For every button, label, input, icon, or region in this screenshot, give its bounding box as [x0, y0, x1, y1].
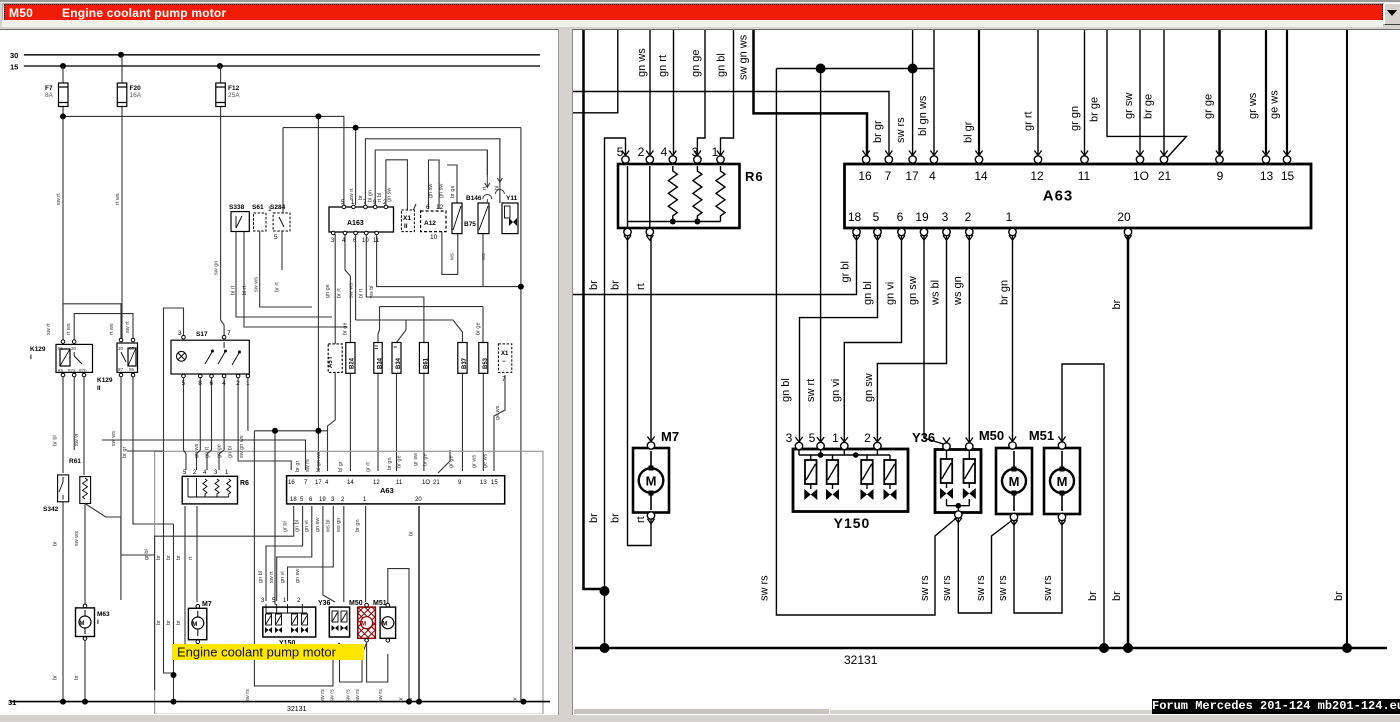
- svg-text:15: 15: [10, 63, 18, 72]
- wire sw rt to Y150 pin 5 mini: [274, 431, 276, 605]
- fuse F12: [216, 83, 226, 107]
- junction dots on buses: [60, 52, 223, 69]
- valve block Y150: [793, 449, 908, 531]
- svg-text:Y150: Y150: [834, 515, 871, 531]
- sensor B75: [452, 203, 462, 234]
- svg-text:bl rt: bl rt: [242, 285, 248, 295]
- svg-text:M: M: [646, 474, 657, 489]
- svg-text:18: 18: [290, 497, 297, 503]
- sensor B61: [419, 343, 428, 374]
- wire gn sw from A63 pin 19 to Y36 pin 1: [924, 235, 947, 445]
- svg-text:X1: X1: [501, 351, 509, 357]
- svg-text:12: 12: [1030, 169, 1044, 183]
- wire sw rt to K129 I: [62, 116, 64, 340]
- wire to A63 pin 17 via junction: [317, 116, 319, 471]
- svg-text:bl rt: bl rt: [231, 285, 237, 295]
- svg-text:15: 15: [491, 480, 498, 486]
- svg-text:br: br: [74, 675, 80, 680]
- svg-text:br: br: [1333, 591, 1345, 601]
- svg-text:R6: R6: [240, 480, 249, 487]
- svg-text:br: br: [1087, 591, 1099, 601]
- wire top-left elbow: [573, 28, 618, 113]
- wire sw rt junction to Y150 pin 5: [820, 69, 822, 444]
- svg-text:br: br: [176, 555, 182, 560]
- svg-text:br ge: br ge: [342, 322, 348, 335]
- svg-text:B61: B61: [424, 357, 430, 369]
- motor M50 mini highlighted: [358, 607, 376, 638]
- combobox: selected schematic M50: [2, 3, 1386, 25]
- Y150 internals: [799, 446, 896, 489]
- wire gn bl from A63 pin 5 to Y150 pin 3: [800, 235, 878, 443]
- wire to A63 pin 4: [933, 28, 935, 159]
- forum watermark bar: [1152, 699, 1400, 714]
- svg-text:6: 6: [897, 210, 904, 224]
- svg-text:br rt: br rt: [336, 288, 342, 298]
- svg-text:25A: 25A: [228, 92, 240, 99]
- wire br from A63 pin 20 to ground bus: [1127, 235, 1130, 648]
- wire gn vi from A63 pin 6 to Y150 pin 1: [844, 235, 901, 443]
- svg-text:gn bl: gn bl: [716, 53, 728, 77]
- wire br ge from A163 pin 4 to B24: [345, 234, 350, 343]
- svg-text:S61: S61: [252, 204, 264, 211]
- svg-text:gr rt: gr rt: [366, 462, 372, 472]
- svg-text:2: 2: [864, 431, 871, 445]
- svg-text:10: 10: [362, 238, 369, 244]
- svg-text:5: 5: [873, 210, 880, 224]
- svg-text:17: 17: [315, 480, 322, 486]
- motor M7: [633, 429, 679, 519]
- svg-text:20: 20: [415, 497, 422, 503]
- svg-text:31: 31: [8, 698, 16, 707]
- svg-text:gn sw: gn sw: [863, 373, 875, 402]
- A63 bottom pin numbers: [848, 210, 1131, 224]
- svg-text:M: M: [1057, 474, 1068, 489]
- svg-text:gn vi: gn vi: [830, 379, 842, 402]
- svg-text:sw rs: sw rs: [895, 117, 907, 143]
- switch unit S17: [171, 340, 249, 374]
- S17 lamp: [177, 351, 187, 361]
- svg-text:85: 85: [58, 368, 64, 373]
- svg-text:3: 3: [786, 431, 793, 445]
- svg-text:sw rs: sw rs: [320, 689, 326, 702]
- wire ws bl A63 pin 3 to Y150 pin 2 mini: [288, 506, 334, 601]
- svg-text:13: 13: [480, 480, 487, 486]
- sensor B37: [458, 343, 467, 374]
- svg-text:gn ws: gn ws: [194, 443, 200, 458]
- svg-text:17: 17: [905, 169, 919, 183]
- wire sw ws from R61 to M63 and br to ground: [84, 504, 86, 702]
- svg-text:gn ge: gn ge: [216, 444, 222, 458]
- svg-text:sw rs: sw rs: [245, 689, 251, 702]
- wire S17 outputs down to R6: [102, 377, 524, 702]
- svg-text:sw rt: sw rt: [269, 571, 275, 583]
- svg-text:2: 2: [965, 210, 972, 224]
- control unit A63: [845, 164, 1312, 228]
- svg-text:br: br: [156, 555, 162, 560]
- svg-text:5: 5: [809, 431, 816, 445]
- wire br R6 to M7 bottom mini: [185, 506, 198, 648]
- svg-text:87: 87: [118, 367, 124, 372]
- svg-text:gr ws: gr ws: [1247, 92, 1259, 119]
- connector S338: [231, 212, 249, 232]
- wire elbow left mini: [127, 450, 164, 452]
- svg-text:br bl: br bl: [53, 435, 59, 446]
- motor M51: [1029, 428, 1080, 521]
- wire bus from A163 pin 6 to B37: [356, 234, 463, 343]
- svg-text:gn bl: gn bl: [258, 571, 264, 583]
- svg-text:br gr: br gr: [122, 447, 128, 458]
- svg-text:br rt: br rt: [275, 282, 281, 292]
- svg-text:X1: X1: [403, 215, 411, 222]
- S17 contacts: [205, 342, 241, 365]
- wire gn ge S17 pin 6 to R6 pin 4: [207, 377, 212, 470]
- svg-text:2: 2: [297, 598, 301, 604]
- valve block Y36 mini: [329, 607, 349, 637]
- svg-text:gn bl: gn bl: [862, 281, 874, 305]
- wire sw rt bridge K129 I to K129 II: [63, 304, 121, 340]
- wire gn bl A63 pin 5 to Y150 pin 3 mini: [266, 506, 303, 601]
- svg-text:5: 5: [274, 234, 278, 241]
- svg-text:br ge: br ge: [1089, 97, 1101, 122]
- wire gr ws to A63 pin 13: [1265, 28, 1267, 159]
- Y150 pin circles and numbers: [795, 442, 881, 449]
- svg-text:gn ge: gn ge: [325, 284, 331, 298]
- svg-text:B146: B146: [466, 195, 482, 202]
- wire br to ground bus: [173, 524, 175, 702]
- svg-text:18: 18: [848, 210, 862, 224]
- svg-text:br: br: [166, 620, 172, 625]
- svg-text:gn bl: gn bl: [780, 378, 792, 402]
- svg-text:1: 1: [1006, 210, 1013, 224]
- svg-text:3: 3: [214, 470, 218, 476]
- svg-text:1O: 1O: [422, 480, 430, 486]
- svg-text:rt: rt: [635, 516, 647, 523]
- svg-text:sw rs: sw rs: [975, 575, 987, 601]
- svg-text:86: 86: [58, 346, 64, 351]
- right panel bottom scrollbar: [574, 709, 1400, 714]
- svg-text:1: 1: [832, 431, 839, 445]
- wire bl gr to A63 pin 14: [978, 28, 980, 159]
- wire br from M7 bottom: [628, 235, 652, 546]
- wire br gn from A63 pin 1 to M50: [1012, 235, 1014, 442]
- motor M63: [76, 608, 95, 637]
- svg-text:II: II: [97, 385, 101, 392]
- wire gr sw to A63 pin 10: [1139, 28, 1141, 159]
- svg-text:br: br: [409, 531, 415, 536]
- svg-text:B34: B34: [378, 357, 384, 369]
- resistor R61: [80, 477, 91, 504]
- svg-text:2: 2: [193, 470, 197, 476]
- svg-text:bl gn ws: bl gn ws: [917, 95, 929, 136]
- svg-text:M51: M51: [1029, 428, 1054, 443]
- svg-text:br: br: [610, 513, 622, 523]
- svg-text:Y36: Y36: [318, 600, 331, 607]
- svg-text:16A: 16A: [130, 92, 142, 99]
- svg-text:10: 10: [430, 234, 438, 241]
- valve block Y36: [912, 430, 981, 513]
- relay K129 I: [56, 344, 93, 372]
- svg-text:B34: B34: [396, 357, 402, 369]
- wire labels upper: [56, 193, 220, 275]
- svg-text:rt ws: rt ws: [109, 323, 115, 335]
- svg-text:br: br: [53, 675, 59, 680]
- wire bridge A12 pins 6 to 12: [429, 160, 440, 209]
- svg-text:sw vi: sw vi: [74, 434, 80, 446]
- svg-text:br ge: br ge: [450, 185, 456, 198]
- wire gn sw A63 pin 19 to Y36 mini: [323, 506, 335, 602]
- svg-text:13: 13: [1260, 169, 1274, 183]
- wire F12 feed: [221, 66, 225, 335]
- svg-text:M63: M63: [97, 611, 110, 618]
- R6 pin numbers: [617, 145, 719, 159]
- svg-text:M: M: [361, 622, 366, 628]
- svg-text:4: 4: [929, 169, 936, 183]
- svg-text:15: 15: [1281, 169, 1295, 183]
- svg-text:sw rs: sw rs: [919, 575, 931, 601]
- sensor B34: [392, 343, 401, 374]
- svg-text:30: 30: [118, 346, 124, 351]
- wire br from R6 pin 5 down to ground bus: [605, 138, 626, 648]
- wire br A63 pin 20 to ground mini: [418, 506, 420, 702]
- svg-text:30: 30: [71, 346, 77, 351]
- R6 internals: three resistors: [628, 166, 726, 229]
- svg-text:bl gr: bl gr: [338, 461, 344, 472]
- wire gn bl to R6 pin 1: [721, 28, 734, 154]
- svg-text:gr ge: gr ge: [1203, 94, 1215, 119]
- wire gn sw from A163 pin 2 to X1: [386, 160, 408, 210]
- svg-text:21: 21: [1158, 169, 1172, 183]
- switch S284: [273, 213, 290, 231]
- svg-text:F12: F12: [228, 85, 240, 92]
- motor M51 mini: [380, 607, 396, 638]
- svg-text:sw rs: sw rs: [329, 689, 335, 702]
- svg-text:gn sw: gn sw: [295, 569, 301, 583]
- wire gn rt S17 pin 8 to R6 pin 2: [197, 377, 201, 470]
- wire gn rt to R6 pin 4: [673, 28, 675, 154]
- svg-text:S338: S338: [229, 204, 245, 211]
- svg-text:16: 16: [858, 169, 872, 183]
- svg-text:4: 4: [203, 470, 207, 476]
- svg-text:gn sw: gn sw: [439, 184, 445, 198]
- sensor B53: [479, 343, 488, 374]
- svg-text:ws: ws: [481, 253, 487, 261]
- svg-text:br gr: br gr: [872, 120, 884, 143]
- svg-text:gn rt: gn rt: [205, 447, 211, 458]
- svg-text:5: 5: [183, 470, 187, 476]
- svg-text:sw rs: sw rs: [997, 575, 1009, 601]
- svg-text:−: −: [502, 359, 506, 365]
- svg-text:br ge: br ge: [423, 453, 429, 466]
- wire br right main drop to ground bus: [520, 128, 522, 702]
- svg-text:br ge: br ge: [1143, 94, 1155, 119]
- svg-text:ws bl: ws bl: [369, 285, 375, 299]
- wire junction line: [776, 68, 934, 70]
- wire ws bl from A63 pin 3 to Y150 pin 2: [877, 235, 946, 443]
- svg-text:I: I: [97, 619, 99, 626]
- svg-text:br gr: br gr: [295, 461, 301, 472]
- control unit A163: [329, 207, 394, 232]
- svg-text:br ge: br ge: [396, 455, 402, 468]
- svg-text:br gn: br gn: [387, 457, 393, 470]
- svg-text:ge ws: ge ws: [495, 405, 501, 420]
- svg-text:S342: S342: [43, 506, 59, 513]
- svg-text:Y11: Y11: [506, 195, 518, 202]
- svg-text:19: 19: [319, 497, 326, 503]
- wire sw gn ws S17 pin 2 to A63 pin 16: [238, 377, 291, 470]
- wire gr gn to A63 pin 11: [1084, 28, 1086, 159]
- wire F7 feed from bus 15: [62, 66, 64, 116]
- svg-text:gn bl: gn bl: [295, 520, 301, 532]
- wire sw ws from K129 II pin 87: [121, 377, 155, 555]
- svg-text:gn ge: gn ge: [690, 49, 702, 77]
- fuse F20: [117, 83, 127, 107]
- svg-text:3: 3: [692, 145, 699, 159]
- svg-text:B24: B24: [350, 357, 356, 369]
- wire rt from R6 to M7 top: [650, 235, 652, 442]
- svg-text:gr gn: gr gn: [1069, 106, 1081, 131]
- wire left thick vertical: [584, 28, 604, 589]
- labels between R6 and A63 mini: [144, 435, 518, 702]
- wire sw rs U route to Y36: [776, 69, 957, 616]
- svg-text:sw ws: sw ws: [111, 431, 117, 446]
- wire sw rs from Y36 bottom to M50 bottom: [958, 517, 1012, 613]
- resistor block R6 mini: [182, 476, 237, 504]
- svg-text:ge ws: ge ws: [1269, 90, 1281, 119]
- wire sw rs U route mini: [254, 431, 339, 686]
- svg-text:6: 6: [426, 204, 430, 211]
- svg-text:A63: A63: [380, 486, 394, 495]
- viewport rectangle: [155, 451, 543, 714]
- svg-text:A12: A12: [424, 220, 436, 227]
- svg-text:br: br: [1111, 299, 1123, 309]
- svg-text:br gn: br gn: [355, 519, 361, 532]
- wire ws from B146: [482, 233, 484, 287]
- top thin highlight line: [0, 0, 1400, 2]
- R6 pin circles top: [622, 156, 724, 163]
- svg-text:4: 4: [661, 145, 668, 159]
- wire sw gn ws to A63 pin 16: [754, 28, 868, 159]
- wire ws gn A63 pin 2 to Y36 mini: [343, 506, 345, 602]
- wire from R61 bottom jog: [85, 504, 121, 601]
- svg-text:gn sw: gn sw: [387, 188, 393, 202]
- wire br gn A63 pin 1 to M50 mini: [365, 506, 367, 602]
- bus 15: [24, 65, 540, 67]
- svg-text:gr bl: gr bl: [283, 521, 289, 532]
- svg-text:sw rs: sw rs: [346, 689, 352, 702]
- wire junction line mini: [254, 430, 327, 432]
- wire rt ws bridge K129 I to K129 II: [74, 314, 133, 340]
- wire br M51 loop to ground mini: [388, 569, 409, 702]
- svg-text:M: M: [382, 622, 387, 628]
- wire rt bl from A163 pin 9 to B146: [375, 150, 487, 205]
- svg-text:br: br: [1111, 591, 1123, 601]
- wire distribution to A163 pin 5: [63, 116, 344, 205]
- svg-text:bl rt: bl rt: [359, 288, 365, 298]
- svg-text:sw rs: sw rs: [305, 459, 311, 472]
- svg-text:br: br: [513, 697, 519, 702]
- wire br ge bus to B53: [380, 307, 484, 343]
- junction dots below fuses: [60, 113, 321, 119]
- svg-text:20: 20: [1117, 210, 1131, 224]
- svg-text:32131: 32131: [844, 653, 878, 667]
- svg-text:19: 19: [915, 210, 929, 224]
- svg-text:gn rt: gn rt: [657, 55, 669, 77]
- relay K129 II: [117, 343, 138, 372]
- relay block R6: [618, 164, 764, 228]
- svg-text:M: M: [80, 621, 85, 627]
- svg-text:br: br: [588, 280, 600, 290]
- svg-text:R61: R61: [69, 458, 81, 465]
- wire K129 II to ground run: [133, 377, 174, 524]
- A63 top pin numbers: [858, 169, 1294, 183]
- switch S342: [58, 475, 69, 502]
- svg-text:gn vi: gn vi: [304, 520, 310, 532]
- wire br from M51 top loop to ground bus: [1062, 364, 1104, 648]
- A63 bottom pin circles: [853, 228, 1132, 235]
- svg-text:sw rs: sw rs: [355, 689, 361, 702]
- bus 30: [24, 54, 540, 56]
- svg-text:ge ws: ge ws: [482, 453, 488, 468]
- svg-text:br: br: [408, 697, 414, 702]
- sensor B146: [478, 203, 489, 234]
- svg-text:1O: 1O: [1133, 169, 1149, 183]
- svg-text:gn vi: gn vi: [885, 282, 897, 305]
- control unit A12: [421, 211, 446, 232]
- svg-text:A63: A63: [1043, 188, 1074, 205]
- motor M50: [979, 428, 1032, 521]
- svg-text:br ge: br ge: [476, 322, 482, 335]
- svg-text:F20: F20: [130, 85, 142, 92]
- wire gr bl from A63 pin 18 mini: [155, 506, 294, 690]
- control unit A63 mini: [287, 476, 505, 504]
- svg-text:M50: M50: [979, 428, 1004, 443]
- svg-text:A5 I: A5 I: [328, 357, 334, 368]
- sensor B34: [374, 343, 382, 374]
- svg-text:gn bl: gn bl: [228, 446, 234, 458]
- svg-text:sw rt: sw rt: [805, 379, 817, 402]
- svg-text:sw gn ws: sw gn ws: [738, 34, 750, 80]
- sensor A51: [328, 344, 342, 373]
- svg-text:sw gn ws: sw gn ws: [239, 435, 245, 458]
- ground bus 31: [575, 647, 1387, 650]
- svg-text:II: II: [404, 223, 408, 230]
- svg-text:br: br: [176, 620, 182, 625]
- wire br far right to ground bus: [1346, 28, 1348, 648]
- wire gr bl from A63 pin 18: [573, 235, 857, 295]
- svg-text:gr bl: gr bl: [144, 549, 150, 560]
- svg-text:9: 9: [1217, 169, 1224, 183]
- wire sw rs to A63 pin 7: [573, 92, 889, 160]
- svg-text:M50: M50: [349, 600, 363, 607]
- svg-text:11: 11: [396, 480, 403, 486]
- wire from A163 pin 10 to B61: [366, 234, 424, 343]
- svg-text:B75: B75: [464, 221, 476, 228]
- svg-text:sw rs: sw rs: [941, 575, 953, 601]
- svg-text:sw rt: sw rt: [349, 188, 355, 200]
- svg-text:sw rs: sw rs: [759, 575, 771, 601]
- svg-text:rt ws: rt ws: [66, 323, 72, 335]
- svg-text:M51: M51: [373, 600, 387, 607]
- svg-text:gr ws: gr ws: [472, 455, 478, 468]
- svg-text:Engine coolant pump motor: Engine coolant pump motor: [177, 645, 337, 660]
- wire ws gn from A63 pin 2 to Y36 pin 2: [968, 235, 970, 443]
- wire ge ws to A63 pin 15: [1286, 28, 1288, 159]
- svg-text:32131: 32131: [287, 706, 307, 713]
- A63 top pin circles: [862, 156, 1290, 163]
- wire gn bl S17 pin 4 to R6 pin 3: [219, 377, 224, 470]
- svg-text:M: M: [192, 622, 197, 628]
- wire gn ws to R6 pin 2: [649, 28, 651, 154]
